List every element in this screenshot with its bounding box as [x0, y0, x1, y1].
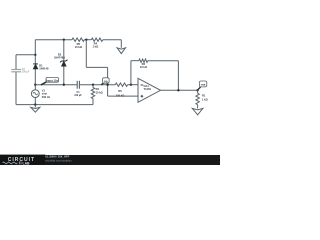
svg-text:TL081: TL081 — [144, 87, 152, 91]
node left T junction — [34, 54, 36, 56]
svg-text:10 kΩ: 10 kΩ — [75, 45, 83, 49]
wire right drop to ground — [120, 40, 122, 48]
svg-text:CIRCUIT: CIRCUIT — [8, 157, 35, 163]
capacitor C1 100uF — [76, 81, 78, 89]
op-amp OA1 TL081 — [138, 78, 161, 102]
node R3 top — [92, 84, 94, 86]
diode D2 (zener) 1N4748A — [60, 60, 67, 63]
capacitor C2 100uF — [11, 69, 21, 71]
resistor R6 100k — [115, 83, 127, 86]
flag node B — [101, 82, 104, 85]
svg-text:circuitlab.com/c/pqbfqu: circuitlab.com/c/pqbfqu — [45, 158, 73, 162]
node feedback tap — [177, 89, 179, 91]
wire gamma drop from R5/R4 node to noninverting input — [85, 40, 87, 68]
svg-text:LAB: LAB — [23, 161, 31, 165]
svg-text:R1: R1 — [202, 94, 206, 98]
flag Input_Div — [41, 82, 47, 85]
svg-text:100 kΩ: 100 kΩ — [116, 94, 125, 98]
node V1 top — [34, 84, 36, 86]
watermark bar — [0, 155, 220, 165]
svg-text:Vb: Vb — [104, 79, 108, 83]
top wire net — [35, 39, 72, 41]
node top of D2 — [63, 39, 65, 41]
flag output — [198, 87, 201, 90]
svg-text:200 Hz: 200 Hz — [42, 95, 51, 99]
resistor R4 — [91, 38, 103, 41]
bottom rail — [16, 104, 93, 106]
svg-text:100 µF: 100 µF — [74, 94, 82, 97]
svg-text:100 µF: 100 µF — [22, 71, 30, 74]
node gamma crossing — [106, 84, 108, 86]
mid wire (signal path) — [35, 84, 77, 86]
feedback: node at inverting input — [130, 84, 132, 86]
svg-text:out: out — [201, 83, 206, 87]
resistor R3 10k — [92, 85, 94, 88]
node A (R5/R4 junction) — [85, 39, 87, 41]
svg-text:10 kΩ: 10 kΩ — [140, 65, 147, 69]
ground (output) — [192, 108, 203, 114]
svg-text:Input_Div: Input_Div — [46, 78, 58, 82]
ground (top right) — [117, 48, 125, 54]
voltage source V1 sine — [31, 90, 39, 98]
svg-text:1N4148: 1N4148 — [39, 66, 49, 70]
output wire — [161, 89, 198, 91]
resistor R5 — [72, 38, 84, 41]
left vertical main branch — [34, 40, 36, 64]
svg-text:1 kΩ: 1 kΩ — [202, 98, 208, 102]
diode D1 1N4148 — [33, 63, 38, 65]
resistor R2 10k — [139, 59, 148, 62]
svg-text:1 kΩ: 1 kΩ — [92, 44, 99, 48]
wire D2 branch — [63, 40, 65, 61]
wire left loop with C2 — [16, 54, 35, 56]
node output — [196, 89, 198, 91]
node V1 bottom — [34, 103, 36, 105]
wire feedback loop — [130, 61, 132, 85]
svg-text:10 kΩ: 10 kΩ — [96, 90, 103, 94]
svg-text:AL:SWH / DIX_HPF: AL:SWH / DIX_HPF — [45, 155, 70, 159]
ground (below V1) — [34, 105, 36, 108]
svg-text:1N4748A: 1N4748A — [54, 56, 65, 60]
svg-text:R6: R6 — [118, 89, 122, 93]
resistor R1 1k — [197, 90, 199, 93]
